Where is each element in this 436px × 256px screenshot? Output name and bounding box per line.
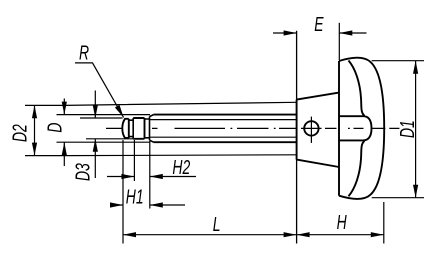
knob outline [339,58,384,199]
hub left face / extension line [296,31,298,244]
dimension D line with outside arrows [63,99,65,167]
svg-text:E: E [314,12,324,35]
knob left face [338,61,340,196]
dimension D2 line with arrows [34,105,36,155]
knob upper lobe curve [349,61,365,116]
L dimension line [123,234,297,236]
H right extension line [383,202,385,244]
H2 extension line right [149,141,151,209]
H1 dimension line with outside arrows [111,204,185,206]
H2 dimension line with outside arrows [107,176,196,178]
knob lower lobe curve [349,141,365,196]
H dimension line [297,234,384,236]
svg-text:D: D [43,122,66,132]
L / H1 left extension line [122,140,124,244]
pad ring [133,118,144,139]
svg-text:D2: D2 [8,124,31,142]
svg-text:H1: H1 [126,185,144,208]
thread major diameter lines [154,115,297,143]
pad neck [145,119,150,138]
pad cap right edge [128,119,130,138]
E dimension line with outside arrows [273,32,367,34]
svg-text:D1: D1 [395,120,418,138]
E right extension line [338,23,340,60]
hole vertical centerline [310,117,312,143]
pad cap (rounded tip) [122,119,129,138]
dimension D3 line with outside arrows [94,91,96,179]
svg-text:L: L [213,212,221,235]
leader R line [75,63,124,118]
thread minor diameter lines [150,120,297,138]
hub cross hole [304,121,318,135]
thread end chamfer [150,115,154,143]
svg-text:H: H [337,210,347,233]
svg-text:R: R [79,41,89,64]
dimension D2 extension/projection lines to hub socket [25,102,297,155]
svg-text:H2: H2 [172,155,190,178]
D1 extension lines [372,61,424,198]
pad groove [129,118,133,139]
hub taper outline [297,93,339,167]
dimension D3 extension lines [80,118,133,139]
H2 extension line left [133,140,135,181]
svg-text:D3: D3 [71,163,94,181]
leader R arrowhead [115,105,124,118]
knob center boss [339,116,372,140]
D1 dimension line [415,61,417,198]
dimension D extension lines [57,115,151,143]
centerline [106,127,399,129]
